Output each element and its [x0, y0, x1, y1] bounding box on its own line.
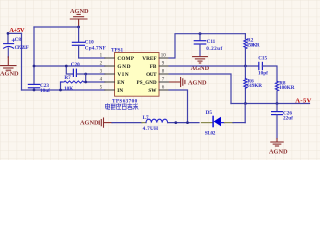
svg-text:AGND: AGND — [188, 80, 207, 87]
wire: olive segment at diode cathode — [202, 122, 213, 124]
svg-text:COMP: COMP — [117, 56, 134, 62]
capacitor C15 10pf — [259, 62, 263, 69]
junction A+5V label — [7, 32, 10, 35]
junction AGND stem / C10 — [77, 26, 80, 29]
ground AGND (below C11) — [193, 57, 208, 63]
pin 4 EN — [105, 81, 115, 83]
wire: pin2 row — [34, 65, 105, 67]
junction C23 bottom on +5V rail — [33, 89, 36, 92]
svg-text:Cp4.7NF: Cp4.7NF — [85, 46, 106, 52]
svg-text:10uf: 10uf — [40, 88, 50, 94]
pin 2 GND — [105, 65, 115, 67]
pin 5 IN — [105, 89, 115, 91]
pin 10 VREF — [159, 57, 169, 59]
capacitor C23 10uf — [28, 84, 39, 90]
junction R7 right / pin4 — [84, 81, 87, 84]
diode D5 SL02 — [212, 116, 214, 126]
resistor R2 150KR — [244, 39, 247, 49]
capacitor C20 — [66, 66, 73, 74]
svg-text:CP22UF: CP22UF — [15, 46, 29, 51]
wire: A+5V bottom rail to pin 5 — [22, 89, 105, 91]
svg-text:A+5V: A+5V — [9, 27, 25, 34]
wire: VIN to EN vertical — [85, 74, 87, 82]
svg-text:SW: SW — [148, 88, 157, 94]
op-amp U1 : TPS63700 chip body — [115, 53, 160, 97]
svg-text:SL02: SL02 — [205, 130, 216, 136]
pin 3 VIN — [105, 73, 115, 75]
svg-text:C11: C11 — [207, 39, 216, 45]
svg-text:OUT: OUT — [146, 72, 157, 78]
pin 9 FB — [159, 65, 169, 67]
ground AGND (below C26) — [271, 139, 283, 146]
wire: ground to inductor — [112, 122, 142, 124]
svg-text:22uf: 22uf — [283, 115, 293, 121]
svg-text:FB: FB — [150, 64, 157, 70]
wire: A-5V output rail — [231, 103, 310, 105]
wire: AGND net vertical to pin2 row and C23 — [33, 27, 35, 84]
svg-text:C20: C20 — [71, 62, 80, 68]
svg-text:0.22uf: 0.22uf — [206, 46, 222, 52]
wire: pin6 SW down to inductor node — [169, 90, 188, 123]
junction C20 right / pin3 — [84, 73, 87, 76]
junction pin2 row x34 — [33, 65, 36, 68]
capacitor C8 (polarized CP22UF) — [4, 39, 15, 58]
wire: A+5V vertical down left side — [21, 33, 23, 90]
pin 7 PS_GND — [159, 81, 169, 83]
inductor L7 4.7UH — [146, 119, 168, 122]
svg-text:AGND: AGND — [0, 71, 19, 78]
svg-text:4.7UH: 4.7UH — [143, 126, 159, 132]
label: chinese caption 电源反向芯片 — [105, 104, 138, 110]
wire: A+5V from label to C8 and corner — [8, 33, 22, 43]
junction SW node — [186, 121, 189, 124]
svg-text:IN: IN — [117, 88, 123, 94]
capacitor C26 22uf — [276, 104, 278, 112]
junction inductor node — [174, 121, 177, 124]
svg-text:TPS63700: TPS63700 — [112, 98, 138, 104]
svg-text:R7: R7 — [64, 75, 71, 81]
junction R6 bottom on rail — [244, 102, 247, 105]
svg-text:A-5V: A-5V — [295, 97, 311, 104]
svg-text:C15: C15 — [258, 55, 267, 61]
svg-text:AGND: AGND — [269, 148, 288, 155]
ground AGND (sideways at pin 7) — [169, 78, 185, 87]
svg-text:D5: D5 — [206, 110, 213, 116]
svg-text:C8: C8 — [15, 37, 22, 43]
resistor R6 619KR — [244, 66, 246, 104]
wire: pin9 FB row — [169, 65, 258, 67]
wire: inductor to diode — [168, 122, 199, 124]
junction C11 top — [199, 32, 202, 35]
junction R7 left on +5V rail — [59, 89, 62, 92]
svg-text:GND: GND — [117, 64, 130, 70]
capacitor C10 Cp4.7NF — [78, 27, 80, 42]
junction C20 feed on pin2 row — [65, 65, 68, 68]
ground AGND (below C8) — [1, 57, 16, 70]
junction R8/C26 on rail — [276, 102, 279, 105]
svg-text:10: 10 — [161, 54, 167, 59]
svg-text:AGND: AGND — [80, 120, 99, 127]
svg-text:150KR: 150KR — [247, 42, 260, 48]
svg-text:VIN: VIN — [117, 72, 128, 78]
junction FB / R2 / R6 — [244, 65, 247, 68]
pin 8 OUT — [159, 73, 169, 75]
svg-text:EN: EN — [117, 80, 124, 86]
svg-text:100KR: 100KR — [279, 85, 295, 91]
pin 1 COMP — [105, 57, 115, 59]
wire: pin10 VREF riser — [169, 34, 245, 58]
svg-text:PS_GND: PS_GND — [137, 81, 157, 86]
wire: diode to rail riser — [244, 104, 246, 123]
pin 6 SW — [159, 89, 169, 91]
resistor R8 100KR — [275, 81, 278, 91]
resistor R7 10K — [61, 82, 63, 90]
capacitor C11 0.22uf — [199, 34, 201, 41]
wire: AGND top net horizontal — [34, 26, 79, 28]
wire: olive segment left of inductor — [142, 122, 146, 124]
svg-text:VREF: VREF — [142, 56, 156, 62]
svg-text:L7: L7 — [143, 115, 149, 121]
svg-text:10K: 10K — [64, 86, 73, 92]
svg-text:10pf: 10pf — [258, 71, 268, 77]
svg-text:619KR: 619KR — [247, 83, 262, 89]
svg-text:TPS1: TPS1 — [111, 48, 124, 54]
wire: pin8 OUT down to rail — [169, 74, 231, 104]
